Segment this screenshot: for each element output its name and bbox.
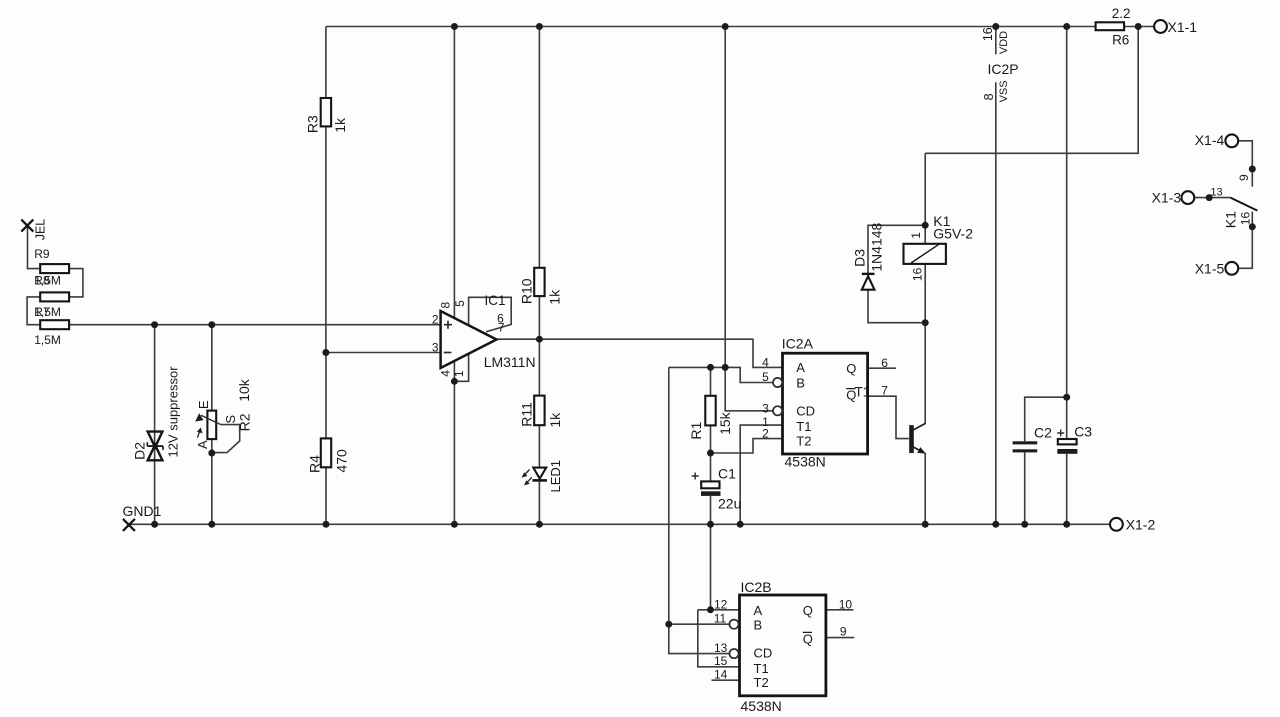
svg-text:9: 9 xyxy=(1237,174,1251,181)
svg-text:LM311N: LM311N xyxy=(484,354,536,370)
svg-text:10: 10 xyxy=(839,597,853,611)
svg-text:5: 5 xyxy=(762,370,769,384)
svg-text:JEL: JEL xyxy=(33,219,47,241)
svg-text:C2: C2 xyxy=(1034,424,1052,440)
svg-text:12: 12 xyxy=(714,597,728,611)
svg-text:R3: R3 xyxy=(304,115,320,133)
svg-text:A: A xyxy=(796,360,805,375)
svg-text:R1: R1 xyxy=(688,421,704,439)
svg-text:CD: CD xyxy=(796,404,815,419)
svg-text:G5V-2: G5V-2 xyxy=(933,226,973,242)
svg-text:IC2A: IC2A xyxy=(782,335,814,351)
svg-text:8: 8 xyxy=(982,93,996,100)
svg-text:10k: 10k xyxy=(236,378,252,402)
svg-text:6: 6 xyxy=(881,356,888,370)
svg-text:16: 16 xyxy=(981,27,995,41)
svg-text:VSS: VSS xyxy=(998,80,1010,102)
svg-text:1: 1 xyxy=(452,370,466,377)
svg-text:LED1: LED1 xyxy=(548,460,563,493)
svg-text:2: 2 xyxy=(762,427,769,441)
svg-text:X1-4: X1-4 xyxy=(1195,132,1225,148)
svg-text:12V suppressor: 12V suppressor xyxy=(166,366,181,458)
svg-text:X1-3: X1-3 xyxy=(1152,190,1182,206)
svg-text:A: A xyxy=(754,603,763,618)
svg-text:3: 3 xyxy=(762,401,769,415)
svg-text:R4: R4 xyxy=(306,455,322,473)
svg-text:Q: Q xyxy=(803,603,813,618)
svg-text:9: 9 xyxy=(840,624,847,638)
svg-text:T1: T1 xyxy=(754,661,769,676)
svg-text:CD: CD xyxy=(754,646,773,661)
svg-text:2: 2 xyxy=(432,313,439,327)
svg-text:IC2B: IC2B xyxy=(741,579,772,595)
svg-text:4538N: 4538N xyxy=(741,698,782,714)
svg-text:X1-5: X1-5 xyxy=(1195,260,1225,276)
svg-text:5: 5 xyxy=(453,300,467,307)
svg-text:15: 15 xyxy=(714,654,728,668)
svg-text:R7: R7 xyxy=(34,305,50,319)
svg-text:4: 4 xyxy=(762,355,769,369)
svg-text:7: 7 xyxy=(498,321,505,335)
svg-text:B: B xyxy=(796,376,805,391)
svg-text:D2: D2 xyxy=(132,442,148,460)
svg-text:IC2P: IC2P xyxy=(988,61,1019,77)
svg-text:R11: R11 xyxy=(519,402,535,427)
svg-text:T2: T2 xyxy=(754,675,769,690)
svg-text:22u: 22u xyxy=(718,496,741,512)
svg-text:R9: R9 xyxy=(34,247,50,261)
svg-text:4538N: 4538N xyxy=(785,453,826,469)
svg-text:1k: 1k xyxy=(332,117,348,133)
svg-text:14: 14 xyxy=(714,667,728,681)
svg-text:GND1: GND1 xyxy=(123,503,162,519)
svg-text:R8: R8 xyxy=(34,274,50,288)
svg-text:K1: K1 xyxy=(1223,211,1239,228)
svg-text:1k: 1k xyxy=(547,412,563,428)
svg-text:X1-2: X1-2 xyxy=(1126,516,1156,532)
svg-text:16: 16 xyxy=(911,267,925,281)
svg-text:X1-1: X1-1 xyxy=(1168,19,1198,35)
svg-text:13: 13 xyxy=(714,641,728,655)
svg-text:11: 11 xyxy=(714,612,727,626)
svg-text:4: 4 xyxy=(438,370,452,377)
svg-text:E: E xyxy=(196,400,211,409)
svg-text:1N4148: 1N4148 xyxy=(868,222,884,271)
svg-text:C3: C3 xyxy=(1074,424,1092,440)
svg-text:16: 16 xyxy=(1238,212,1252,226)
svg-text:1k: 1k xyxy=(547,289,563,305)
svg-text:Q: Q xyxy=(803,631,813,646)
svg-text:15k: 15k xyxy=(717,411,733,435)
svg-text:7: 7 xyxy=(881,384,888,398)
svg-text:1: 1 xyxy=(909,232,923,239)
svg-text:R10: R10 xyxy=(519,278,535,304)
svg-text:IC1: IC1 xyxy=(485,293,506,308)
svg-text:T1: T1 xyxy=(855,385,871,400)
svg-text:C1: C1 xyxy=(718,465,736,481)
svg-text:T2: T2 xyxy=(796,434,811,449)
svg-text:R2: R2 xyxy=(237,413,253,431)
svg-text:2.2: 2.2 xyxy=(1112,6,1131,21)
svg-text:T1: T1 xyxy=(796,419,811,434)
svg-text:S: S xyxy=(223,415,238,424)
svg-text:Q: Q xyxy=(846,361,856,376)
svg-text:3: 3 xyxy=(432,340,439,354)
svg-text:470: 470 xyxy=(334,449,350,473)
svg-text:D3: D3 xyxy=(852,249,868,267)
svg-text:R6: R6 xyxy=(1112,33,1129,48)
svg-text:VDD: VDD xyxy=(998,31,1010,54)
svg-text:8: 8 xyxy=(438,301,452,308)
svg-text:B: B xyxy=(754,617,763,632)
svg-text:1,5M: 1,5M xyxy=(34,333,61,347)
svg-text:A: A xyxy=(195,440,210,449)
svg-text:13: 13 xyxy=(1210,186,1222,198)
